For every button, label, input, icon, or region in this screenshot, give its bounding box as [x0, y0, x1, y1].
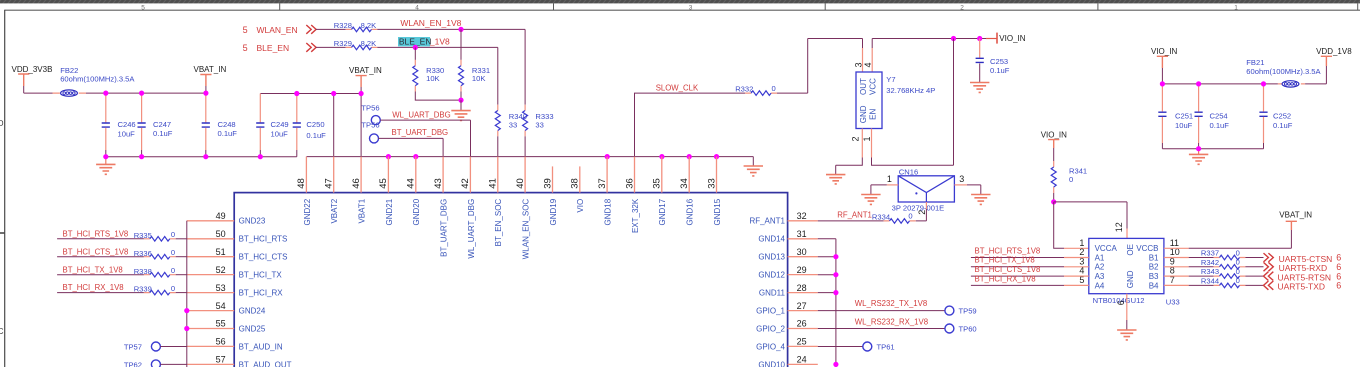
svg-text:R332: R332	[735, 84, 753, 93]
svg-text:GND10: GND10	[758, 360, 785, 367]
test point TP57	[124, 342, 161, 352]
svg-text:BT_HCI_RX_1V8: BT_HCI_RX_1V8	[63, 283, 124, 292]
svg-text:1: 1	[1234, 4, 1238, 11]
off-page chevron UART5-RXD	[1264, 262, 1274, 271]
wire R340 to pin 41	[497, 136, 499, 156]
wire TP62 to pin 57	[160, 363, 187, 365]
svg-text:GND24: GND24	[239, 307, 266, 316]
svg-text:GND21: GND21	[385, 198, 394, 225]
Y7 pin 1 stub	[871, 129, 873, 158]
svg-text:C247: C247	[153, 120, 171, 129]
wire R335 to pin 50	[176, 238, 187, 240]
section tick 4|3	[553, 3, 555, 10]
svg-text:RF_ANT1: RF_ANT1	[749, 217, 785, 226]
svg-text:_1V8: _1V8	[429, 37, 450, 47]
section tick 5|4	[279, 3, 281, 10]
svg-text:A3: A3	[1095, 272, 1105, 281]
svg-text:GPIO_2: GPIO_2	[756, 324, 785, 333]
ferrite bead FB22	[53, 66, 136, 96]
junction dot VIO node	[1051, 199, 1056, 204]
wire CN16 pin 3 to ground	[954, 184, 967, 186]
pin 44 GND20 stub	[415, 157, 417, 193]
wire VCCB to VBAT_IN	[1189, 230, 1292, 248]
U33 pin 5 stub	[1064, 284, 1089, 286]
section tick right edge	[1357, 3, 1359, 10]
GNDRAIL	[306, 154, 763, 176]
svg-text:GND19: GND19	[549, 198, 558, 225]
svg-text:29: 29	[797, 265, 807, 275]
svg-text:WLAN_EN_1V8: WLAN_EN_1V8	[400, 18, 461, 28]
svg-text:A2: A2	[1095, 263, 1105, 272]
svg-text:4: 4	[415, 4, 419, 11]
svg-text:VBAT1: VBAT1	[358, 198, 367, 223]
svg-text:GND17: GND17	[658, 198, 667, 225]
OSC	[635, 33, 1026, 184]
ground under C254	[1189, 149, 1208, 165]
antenna connector CN16	[892, 168, 955, 213]
capacitor C248	[202, 93, 238, 157]
U33 pin 7 stub	[1164, 284, 1189, 286]
svg-text:54: 54	[216, 301, 226, 311]
svg-text:BT_HCI_RTS_1V8: BT_HCI_RTS_1V8	[63, 229, 129, 238]
svg-text:TP56: TP56	[361, 121, 379, 130]
pin 33 GND15 stub	[716, 157, 718, 193]
svg-text:30: 30	[797, 247, 807, 257]
pin 56 BT_AUD_IN stub	[187, 345, 234, 347]
svg-text:0.1uF: 0.1uF	[1273, 121, 1293, 130]
svg-text:B4: B4	[1149, 281, 1159, 290]
U33 pin 9 stub	[1164, 266, 1189, 268]
test point TP60	[945, 324, 977, 334]
svg-text:TP62: TP62	[124, 360, 142, 367]
pin 26 GPIO_2 stub	[788, 328, 818, 330]
svg-text:33: 33	[535, 121, 543, 130]
junction dot R331 top	[458, 27, 463, 32]
U33 left pin numbers	[1079, 238, 1084, 285]
svg-text:0: 0	[171, 230, 175, 239]
U33 pin 8 stub	[1164, 275, 1189, 277]
sheet top border line	[5, 9, 1360, 11]
svg-text:0.1uF: 0.1uF	[153, 129, 173, 138]
resistor R332 0	[735, 84, 777, 95]
svg-text:GPIO_4: GPIO_4	[756, 342, 785, 351]
wire TP57 to pin 56	[160, 346, 187, 348]
power flag VBAT_IN (U33)	[1279, 210, 1312, 230]
wire FB22 to C248 node	[86, 92, 206, 94]
wire pin 6 to ground	[1126, 320, 1128, 330]
svg-text:35: 35	[652, 178, 663, 189]
svg-text:1: 1	[887, 174, 892, 184]
power flag VDD_3V3B	[12, 65, 53, 93]
svg-text:BT_HCI_TX_1V8: BT_HCI_TX_1V8	[975, 256, 1035, 265]
wire R341 to node	[1053, 193, 1055, 202]
wire TP56 to pin 43	[378, 138, 443, 156]
svg-text:VIO_IN: VIO_IN	[1151, 47, 1177, 56]
svg-text:R333: R333	[535, 112, 553, 121]
CN	[818, 168, 991, 224]
wire R328 to pin40 riser	[377, 28, 525, 30]
svg-text:2: 2	[960, 4, 964, 11]
svg-text:C249: C249	[271, 120, 289, 129]
svg-text:10uF: 10uF	[1175, 121, 1193, 130]
svg-text:EN: EN	[868, 109, 877, 120]
svg-text:VIO: VIO	[576, 199, 585, 213]
wire pin 27 to TP59	[818, 310, 945, 312]
U33 pin 2 stub	[1064, 257, 1089, 259]
svg-text:GND14: GND14	[758, 235, 785, 244]
svg-text:TP61: TP61	[877, 343, 895, 352]
off-page chevron UART5-RTSN	[1264, 272, 1274, 281]
wire VIO rail top	[1162, 83, 1278, 85]
resistor R337 0	[1201, 248, 1246, 259]
svg-text:39: 39	[542, 178, 553, 189]
svg-text:GND12: GND12	[758, 271, 785, 280]
svg-text:3: 3	[689, 4, 693, 11]
pin 57 BT_AUD_OUT stub	[187, 363, 234, 365]
junction dots VIO rail	[1160, 81, 1266, 151]
wire CN16 pin 1 to ground	[887, 184, 898, 186]
svg-text:RF_ANT1: RF_ANT1	[837, 210, 872, 219]
svg-text:0: 0	[1236, 258, 1240, 267]
test point TP56 (WL)	[361, 103, 380, 124]
svg-text:0: 0	[171, 266, 175, 275]
pin 39 GND19 stub	[552, 166, 554, 192]
resistor R335 0	[134, 230, 176, 241]
wire pin 29 to bus	[818, 274, 836, 276]
pin 35 GND17 stub	[661, 157, 663, 193]
U33 pin 1 stub	[1064, 247, 1089, 249]
LEFTPOWER	[12, 65, 382, 175]
resistor R328 8.2K	[334, 21, 378, 32]
svg-text:5: 5	[243, 43, 248, 53]
pin 34 GND16 stub	[688, 157, 690, 193]
svg-text:VBAT_IN: VBAT_IN	[1279, 210, 1312, 219]
svg-text:51: 51	[216, 247, 226, 257]
svg-text:C252: C252	[1273, 111, 1291, 120]
pin 55 GND25 stub	[187, 328, 234, 330]
U33 pin 12 stub	[1126, 229, 1128, 239]
svg-text:VCCA: VCCA	[1095, 244, 1118, 253]
resistor R343 0	[1201, 267, 1246, 279]
pin 36 EXT_32K stub	[634, 157, 636, 193]
TOPRIGHT	[1151, 47, 1352, 164]
wire pin 25 to TP61	[818, 346, 863, 348]
wire right gnd bus from pin 31	[818, 239, 836, 367]
ground U33 pin 6	[1117, 330, 1136, 340]
pin 41 BT_EN_SOC stub	[497, 157, 499, 193]
wire B1 to R337	[1189, 257, 1214, 259]
svg-text:GND25: GND25	[239, 324, 266, 333]
svg-text:GND13: GND13	[758, 253, 785, 262]
svg-text:12: 12	[1114, 222, 1124, 232]
svg-text:WLAN_EN_SOC: WLAN_EN_SOC	[522, 199, 531, 260]
capacitor C251	[1158, 84, 1193, 149]
svg-text:BT_HCI_CTS_1V8: BT_HCI_CTS_1V8	[63, 247, 129, 256]
wire chip ground rail	[306, 156, 753, 158]
wire riser to pin 46 VBAT1	[360, 94, 362, 157]
wire Y7 GND pin 2 to ground	[836, 158, 863, 175]
svg-text:25: 25	[797, 337, 807, 347]
junction dot pulldown gnd node	[458, 98, 463, 103]
svg-text:49: 49	[216, 211, 226, 221]
svg-text:5: 5	[243, 25, 248, 35]
svg-text:3: 3	[853, 62, 863, 67]
svg-text:6: 6	[1336, 281, 1341, 291]
svg-text:R337: R337	[1201, 249, 1219, 258]
pin 32 RF_ANT1 stub	[788, 220, 818, 222]
ground under C253	[970, 83, 989, 93]
off-page chevron UART5-CTSN	[1264, 253, 1274, 262]
wire Y7 EN pin 1 to VIO branch	[872, 39, 954, 166]
ground CN16 pin 3	[971, 195, 990, 205]
svg-text:32.768KHz 4P: 32.768KHz 4P	[886, 86, 935, 95]
svg-text:VBAT_IN: VBAT_IN	[194, 65, 227, 74]
wire Y7 VCC pin 4 to VIO	[872, 39, 986, 49]
capacitor C253	[976, 39, 1010, 83]
section tick 3|2	[824, 3, 826, 10]
resistor R344 0	[1201, 276, 1246, 288]
svg-text:0.1uF: 0.1uF	[218, 129, 238, 138]
resistor R338 0	[134, 266, 176, 277]
wire TP56 to pin 42	[380, 120, 470, 157]
pin 38 VIO stub	[579, 166, 581, 192]
off-page chevron WLAN_EN	[306, 25, 316, 34]
svg-text:OUT: OUT	[859, 78, 868, 95]
pin 31 GND14 stub	[788, 238, 818, 240]
wire R329 to pin41 riser	[377, 46, 498, 48]
junction dot pin 24	[833, 362, 838, 367]
CN16 pin 2 stub	[925, 202, 927, 209]
wire R332 to Y7 OUT pin 3	[777, 39, 863, 94]
wire riser to pin 47 VBAT2	[333, 94, 335, 157]
svg-text:24: 24	[797, 355, 807, 365]
svg-text:10K: 10K	[426, 74, 440, 83]
wire R343 to port	[1245, 275, 1263, 277]
svg-text:B3: B3	[1149, 272, 1159, 281]
svg-text:0: 0	[1236, 248, 1240, 257]
svg-text:B2: B2	[1149, 263, 1159, 272]
pin 46 VBAT1 stub	[360, 157, 362, 193]
wire R338 to pin 52	[176, 274, 187, 276]
wire row 52 left	[57, 274, 144, 276]
power flag VIO_IN (top right)	[1151, 47, 1177, 84]
wire C249 to VBAT pin risers	[260, 93, 361, 95]
svg-text:GND15: GND15	[713, 198, 722, 225]
wire caps ground bus	[106, 156, 297, 158]
resistor R339 0	[134, 284, 176, 295]
ground CN16 pin 1	[861, 195, 880, 205]
svg-text:TP59: TP59	[959, 307, 977, 316]
U33 pin 10 stub	[1164, 257, 1189, 259]
pin 54 GND24 stub	[187, 310, 234, 312]
top hatched strip	[0, 0, 1360, 3]
svg-text:A4: A4	[1095, 281, 1105, 290]
LEFTROWS	[57, 221, 189, 367]
wire R339 to pin 53	[176, 292, 187, 294]
svg-text:6: 6	[1116, 300, 1126, 305]
svg-text:C251: C251	[1175, 111, 1193, 120]
svg-text:27: 27	[797, 301, 807, 311]
svg-text:D: D	[0, 119, 4, 128]
svg-text:BT_HCI_RTS_1V8: BT_HCI_RTS_1V8	[975, 246, 1041, 255]
ferrite bead FB21	[1246, 58, 1321, 87]
svg-text:BT_HCI_RTS: BT_HCI_RTS	[239, 235, 288, 244]
TPDBG	[361, 103, 470, 156]
svg-text:1: 1	[862, 136, 872, 141]
wire A3 row	[971, 275, 1064, 277]
svg-text:C253: C253	[990, 57, 1008, 66]
junction dot pin 54	[184, 308, 189, 313]
U33 pin 4 stub	[1064, 275, 1089, 277]
power flag VIO_IN (right of C253)	[997, 33, 1026, 44]
svg-text:3: 3	[959, 174, 964, 184]
capacitor C254	[1195, 84, 1230, 149]
svg-text:0.1uF: 0.1uF	[1210, 121, 1230, 130]
svg-text:BT_HCI_RX: BT_HCI_RX	[239, 289, 284, 298]
svg-text:EXT_32K: EXT_32K	[631, 198, 640, 233]
wire R330/R331 bottoms join	[415, 92, 461, 101]
wire riser to pin 41 upper	[497, 47, 499, 104]
pin 40 WLAN_EN_SOC stub	[524, 157, 526, 193]
pin 37 GND18 stub	[606, 157, 608, 193]
svg-text:A1: A1	[1095, 253, 1105, 262]
pin 47 VBAT2 stub	[333, 157, 335, 193]
ground Y7 pin 2	[826, 175, 845, 184]
svg-text:53: 53	[216, 283, 226, 293]
test point TP62	[124, 360, 161, 367]
crystal oscillator Y7	[851, 62, 936, 141]
svg-text:U33: U33	[1166, 297, 1180, 306]
wire CN16 pin 2 to R334	[916, 209, 927, 221]
svg-text:BLE_EN: BLE_EN	[257, 43, 290, 53]
svg-text:C248: C248	[218, 120, 236, 129]
svg-text:WLAN_EN: WLAN_EN	[257, 25, 298, 35]
svg-text:WL_RS232_TX_1V8: WL_RS232_TX_1V8	[855, 299, 927, 308]
junction dots on rail	[386, 154, 719, 159]
pin 28 GND11 stub	[788, 292, 818, 294]
svg-text:VDD_1V8: VDD_1V8	[1316, 47, 1352, 56]
svg-text:44: 44	[406, 178, 417, 189]
module main BT/WLAN IC outline	[234, 193, 787, 367]
svg-text:GND: GND	[859, 105, 868, 123]
wire BLE_EN to R329	[316, 46, 346, 48]
svg-text:4: 4	[863, 62, 873, 67]
resistor R333 33	[523, 105, 554, 137]
resistor R340 33	[495, 105, 527, 137]
capacitor C246	[102, 93, 136, 157]
svg-text:R344: R344	[1201, 277, 1219, 286]
wire row 51 left	[57, 256, 144, 258]
svg-text:57: 57	[216, 355, 226, 365]
svg-text:47: 47	[324, 178, 335, 189]
svg-text:0: 0	[908, 211, 912, 220]
svg-text:48: 48	[296, 178, 307, 189]
Y7 pin 3 stub	[862, 48, 864, 72]
svg-text:GPIO_1: GPIO_1	[756, 307, 785, 316]
pin 50 BT_HCI_RTS stub	[187, 238, 234, 240]
U33 right pin numbers	[1170, 238, 1180, 285]
junction dot R330 top	[413, 45, 418, 50]
wire caps bottom bus	[1162, 148, 1263, 150]
svg-text:2: 2	[917, 210, 927, 215]
test point TP56 (BT)	[361, 121, 379, 143]
test point TP59	[945, 306, 977, 316]
svg-text:R338: R338	[134, 267, 152, 276]
svg-text:BT_HCI_CTS_1V8: BT_HCI_CTS_1V8	[975, 265, 1041, 274]
svg-text:R335: R335	[134, 231, 152, 240]
pin 29 GND12 stub	[788, 274, 818, 276]
svg-text:GND: GND	[1126, 270, 1135, 288]
pin 51 BT_HCI_CTS stub	[187, 256, 234, 258]
svg-text:32: 32	[797, 211, 807, 221]
CHIP	[187, 157, 818, 367]
svg-text:8.2K: 8.2K	[361, 39, 377, 48]
wire FB21 to VDD_1V8	[1305, 66, 1326, 84]
wire R344 to port	[1245, 284, 1263, 286]
wire WLAN_EN to R328	[316, 28, 346, 30]
junction dot pin 55	[184, 326, 189, 331]
svg-text:BT_UART_DBG: BT_UART_DBG	[440, 199, 449, 257]
svg-text:R328: R328	[334, 21, 352, 30]
pin 30 GND13 stub	[788, 256, 818, 258]
wire pin 32 to R334	[818, 220, 884, 222]
svg-text:33: 33	[706, 178, 717, 189]
pin 52 BT_HCI_TX stub	[187, 274, 234, 276]
svg-text:B1: B1	[1149, 253, 1159, 262]
capacitor C249	[256, 94, 288, 157]
svg-text:VBAT_IN: VBAT_IN	[349, 66, 382, 75]
svg-text:BT_AUD_IN: BT_AUD_IN	[239, 342, 283, 351]
svg-text:34: 34	[679, 178, 690, 189]
svg-text:SLOW_CLK: SLOW_CLK	[656, 84, 699, 93]
wire node to VCCA pin 1	[1054, 202, 1064, 248]
svg-text:GND23: GND23	[239, 217, 266, 226]
svg-text:TP57: TP57	[124, 343, 142, 352]
svg-text:GND20: GND20	[412, 198, 421, 225]
svg-text:41: 41	[488, 178, 499, 189]
svg-text:BT_HCI_TX_1V8: BT_HCI_TX_1V8	[63, 265, 123, 274]
svg-text:52: 52	[216, 265, 226, 275]
wire A1 row	[971, 257, 1064, 259]
svg-text:VCCB: VCCB	[1136, 244, 1158, 253]
off-page chevron BLE_EN	[306, 43, 316, 52]
pin 45 GND21 stub	[387, 157, 389, 193]
svg-text:43: 43	[433, 178, 444, 189]
resistor R330 10K	[413, 47, 444, 91]
svg-text:0: 0	[1236, 267, 1240, 276]
svg-text:R343: R343	[1201, 267, 1219, 276]
svg-text:R329: R329	[334, 39, 352, 48]
svg-text:0.1uF: 0.1uF	[990, 66, 1010, 75]
svg-text:VIO_IN: VIO_IN	[1041, 131, 1067, 140]
svg-text:55: 55	[216, 319, 226, 329]
junction dot pin 28	[833, 290, 838, 295]
wire pin36 riser EXT_32K	[635, 93, 746, 157]
svg-text:38: 38	[570, 178, 581, 189]
svg-text:R342: R342	[1201, 258, 1219, 267]
wire rail drop to ground	[752, 157, 754, 166]
U33 pin 11 stub	[1164, 247, 1189, 249]
wire node to OE pin 12	[1054, 202, 1127, 229]
svg-text:R336: R336	[134, 249, 152, 258]
wire A4 row	[971, 284, 1064, 286]
svg-text:WL_RS232_RX_1V8: WL_RS232_RX_1V8	[855, 318, 928, 327]
pin 43 BT_UART_DBG stub	[442, 157, 444, 193]
svg-text:0: 0	[1069, 175, 1073, 184]
ground at rail end	[744, 166, 763, 176]
wire R333 to pin 40	[524, 136, 526, 156]
pin 24 GND10 stub	[788, 363, 818, 365]
